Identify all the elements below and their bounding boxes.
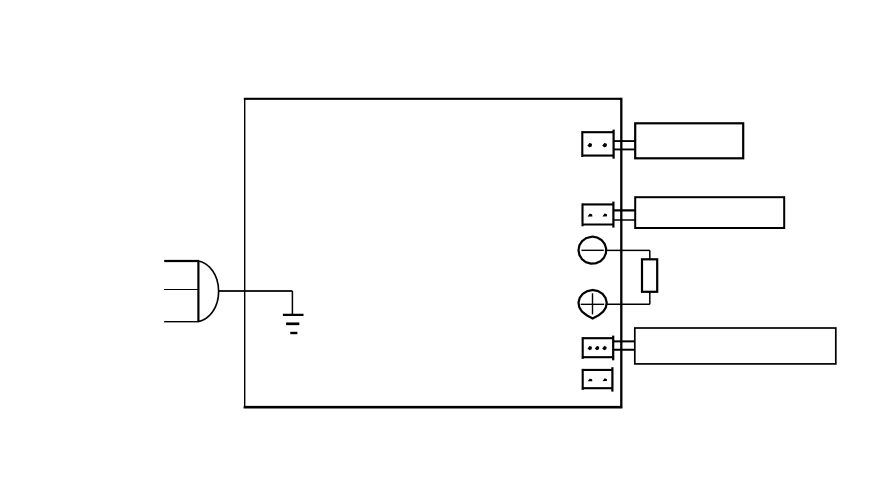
wires J2 to label box	[614, 209, 634, 211]
wire plug to ground node	[219, 290, 293, 292]
indicator CR2 (plus circle)	[579, 290, 607, 319]
indicator CR1 (minus circle)	[579, 237, 607, 264]
wires J3 to label box	[614, 340, 634, 342]
wire CR1 to resistor	[606, 249, 650, 251]
connector J1 (2-pin)	[581, 130, 614, 159]
label box B1	[635, 123, 743, 158]
AC plug P1	[164, 261, 219, 322]
wires J1 to label box	[615, 140, 635, 142]
label box B2	[635, 197, 784, 228]
resistor R1	[642, 259, 657, 292]
main unit enclosure box	[244, 98, 623, 408]
ground	[283, 291, 304, 333]
connector J4 (2-pin)	[582, 367, 613, 391]
label box B3	[635, 328, 836, 364]
wire resistor to CR2	[649, 292, 651, 305]
connector J2 (2-pin)	[582, 202, 614, 228]
connector J3 (3-pin)	[582, 336, 614, 361]
